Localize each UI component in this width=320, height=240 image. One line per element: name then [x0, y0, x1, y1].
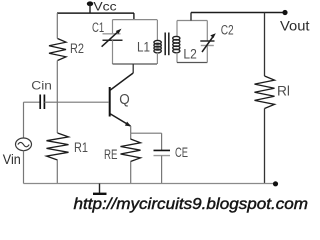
wire rail-to-tank stub [133, 13, 135, 20]
svg-text:R1: R1 [74, 139, 88, 155]
wire tank2 top edge [177, 20, 207, 22]
wire Vout line [191, 12, 285, 14]
capacitor CE [154, 133, 189, 183]
resistor RE [104, 133, 141, 183]
transistor Q [110, 73, 134, 127]
wire tank2 bottom edge [177, 62, 207, 64]
svg-text:Q: Q [119, 92, 130, 108]
svg-text:CE: CE [175, 144, 188, 160]
wire Vcc rail [57, 12, 134, 14]
source Vin [3, 102, 32, 183]
capacitor C1 [92, 20, 123, 64]
svg-text:C2: C2 [221, 23, 234, 38]
svg-text:RE: RE [104, 146, 118, 162]
wire tank1 bottom edge [113, 63, 158, 65]
node Vout [280, 10, 310, 34]
svg-text:Rl: Rl [277, 83, 290, 99]
svg-text:L2: L2 [183, 46, 196, 61]
svg-text:http://mycircuits9.blogspot.co: http://mycircuits9.blogspot.com [74, 196, 309, 213]
wire collector stub [132, 64, 134, 73]
capacitor Cin [24, 79, 58, 110]
svg-text:Cin: Cin [31, 79, 52, 93]
capacitor C2 [200, 21, 233, 63]
inductor L2 [173, 21, 197, 63]
svg-text:Vcc: Vcc [93, 0, 116, 14]
resistor Rl [255, 13, 291, 184]
transformer core [165, 33, 169, 56]
svg-text:Vin: Vin [3, 152, 21, 167]
power Vcc [87, 0, 117, 14]
ground [93, 184, 107, 194]
wire bottom rail [24, 183, 276, 185]
inductor L1 [137, 20, 161, 64]
svg-text:C1: C1 [92, 20, 104, 35]
resistor R2 [49, 13, 84, 102]
resistor R1 [47, 102, 89, 183]
wire emitter stub [130, 126, 132, 133]
node bottom-right junction [273, 181, 278, 186]
wire emitter rail [131, 132, 162, 134]
wire tank1 top edge [113, 19, 158, 21]
svg-text:L1: L1 [137, 40, 150, 55]
wire tank2-to-vout stub [190, 13, 192, 21]
svg-text:R2: R2 [70, 40, 84, 56]
svg-text:Vout: Vout [280, 18, 310, 34]
wire base [58, 101, 109, 103]
